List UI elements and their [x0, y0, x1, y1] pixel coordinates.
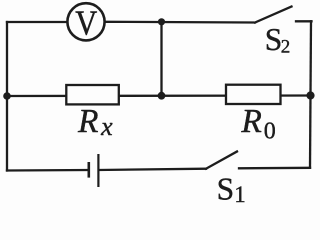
wire top left segment — [7, 21, 68, 23]
junction node middle-center — [158, 92, 166, 100]
battery short plate — [88, 162, 91, 178]
battery long plate — [97, 154, 99, 187]
svg-text:0: 0 — [264, 118, 276, 144]
wire middle vertical branch — [160, 22, 162, 96]
junction node middle-left — [3, 92, 11, 100]
svg-text:2: 2 — [281, 36, 291, 57]
svg-text:V: V — [75, 5, 97, 43]
svg-text:x: x — [100, 112, 113, 141]
switch S1 blade — [206, 152, 237, 169]
resistor Rx body — [66, 85, 119, 104]
svg-text:S: S — [265, 22, 283, 57]
wire middle horizontal — [7, 94, 311, 97]
junction node top — [158, 18, 165, 25]
junction node middle-right — [306, 91, 314, 99]
wire bottom right segment — [239, 167, 310, 170]
wire bottom left segment — [7, 169, 88, 172]
svg-text:R: R — [77, 103, 98, 140]
label S2 — [265, 22, 291, 58]
svg-text:S: S — [217, 171, 235, 204]
wire right vertical — [310, 21, 311, 168]
resistor R0 body — [226, 85, 281, 104]
wire top right stub — [296, 20, 312, 22]
switch S2 blade — [255, 7, 292, 23]
wire bottom middle segment — [99, 169, 206, 170]
wire top middle segment — [104, 21, 255, 24]
voltmeter V1 circle — [67, 3, 104, 40]
svg-text:R: R — [240, 103, 261, 140]
label R0 — [240, 103, 275, 145]
label S1 — [217, 171, 246, 206]
wire left vertical — [6, 22, 8, 171]
label Rx — [77, 103, 113, 141]
svg-text:1: 1 — [234, 182, 246, 204]
